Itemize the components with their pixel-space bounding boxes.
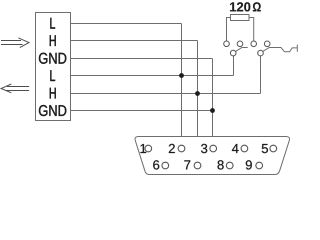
resistor value 120 <box>230 2 250 11</box>
switch S2 blade + actuator linkage <box>263 48 298 52</box>
resistor lead right <box>249 18 254 42</box>
switch S1 contact circles <box>224 41 243 56</box>
wire row5 H <box>71 93 261 95</box>
label L <box>50 70 55 81</box>
label GND <box>39 53 66 64</box>
pin number 4 <box>232 144 239 153</box>
label L <box>50 18 55 29</box>
arrow right (transmit) <box>1 38 29 48</box>
switch S2 contact circles <box>251 41 270 56</box>
resistor value ohm symbol <box>253 2 261 11</box>
DB9 pin circles top row <box>145 145 277 169</box>
wire vertical to pin7 <box>197 41 199 163</box>
wire row3 GND <box>71 58 213 60</box>
label H <box>50 35 56 46</box>
label GND <box>39 105 66 116</box>
wire vertical to pin3 <box>212 59 214 146</box>
wire row2 H <box>71 40 198 42</box>
wire switch1 common down to row4 <box>233 56 235 76</box>
pin number 2 <box>169 144 175 153</box>
actuator end bar <box>296 45 298 52</box>
transceiver box <box>36 13 71 121</box>
resistor lead left <box>227 18 231 42</box>
pin number 9 <box>246 160 252 169</box>
pin number 8 <box>218 160 224 169</box>
junction node row6/GND <box>210 108 215 113</box>
junction node row5/H <box>195 91 200 96</box>
junction node row4/L <box>179 73 184 78</box>
switch S1 blade <box>236 48 248 52</box>
DB9 pin circles bottom row <box>162 162 169 169</box>
wire row1 L <box>71 23 182 25</box>
wire switch2 common down to row5 <box>260 56 262 94</box>
pin number 3 <box>201 144 207 153</box>
wire row4 L <box>71 75 234 77</box>
wire row6 GND <box>71 110 213 112</box>
label H <box>50 88 56 99</box>
pin number 7 <box>184 160 190 169</box>
wire vertical to pin2 <box>181 24 183 146</box>
DB9 connector shell <box>135 137 289 175</box>
pin number 1 <box>140 144 146 153</box>
resistor R1 120 ohm body <box>231 15 250 21</box>
pin number 6 <box>153 160 159 169</box>
arrow left (receive) <box>1 84 29 93</box>
pin number 5 <box>262 144 268 153</box>
